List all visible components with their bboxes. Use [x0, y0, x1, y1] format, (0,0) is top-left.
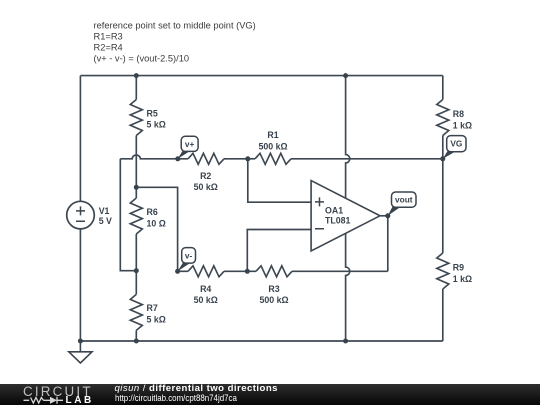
- label R6 value: [147, 207, 166, 228]
- voltage source V1: [67, 201, 112, 229]
- svg-text:50 kΩ: 50 kΩ: [194, 295, 218, 305]
- svg-text:OA1: OA1: [325, 206, 343, 216]
- flag VG: [443, 136, 466, 159]
- ground: [69, 341, 92, 363]
- junction op-amp V- pin bottom rail: [343, 339, 348, 344]
- junction R5 top rail: [134, 73, 139, 78]
- svg-text:R5: R5: [147, 108, 158, 118]
- junction minus input / R4-R3: [245, 269, 250, 274]
- svg-text:(v+ - v-) = (vout-2.5)/10: (v+ - v-) = (vout-2.5)/10: [94, 54, 190, 64]
- svg-text:V1: V1: [99, 206, 110, 216]
- svg-text:500 kΩ: 500 kΩ: [259, 295, 288, 305]
- resistor R1: [255, 153, 291, 164]
- svg-text:5 kΩ: 5 kΩ: [147, 315, 166, 325]
- wire op-amp bottom power pin: [346, 233, 350, 341]
- label R1 value: [258, 130, 287, 152]
- wire middle chain rail: [135, 76, 137, 341]
- wire to op-amp plus input: [248, 159, 311, 202]
- svg-text:50 kΩ: 50 kΩ: [194, 182, 218, 192]
- svg-text:R7: R7: [147, 303, 158, 313]
- svg-text:v-: v-: [185, 250, 193, 260]
- wire op-amp output: [380, 215, 388, 217]
- svg-text:R2: R2: [200, 171, 211, 181]
- svg-text:5 kΩ: 5 kΩ: [147, 120, 166, 130]
- label R4 value: [194, 284, 218, 305]
- svg-text:TL081: TL081: [325, 216, 351, 226]
- flag vout: [388, 192, 416, 216]
- wire right rail upper segment: [442, 76, 444, 159]
- label R9 value: [453, 263, 472, 284]
- resistor R8: [437, 100, 449, 136]
- svg-text:R8: R8: [453, 109, 464, 119]
- resistor R6: [130, 198, 142, 234]
- svg-text:1 kΩ: 1 kΩ: [453, 274, 472, 284]
- svg-text:R4: R4: [200, 284, 211, 294]
- svg-text:reference point set to middle: reference point set to middle point (VG): [94, 21, 256, 31]
- label R2 value: [194, 171, 218, 192]
- resistor R7: [130, 294, 142, 330]
- resistor R4: [188, 266, 224, 277]
- flag v-: [178, 248, 196, 272]
- label R7 value: [147, 303, 166, 324]
- svg-text:R6: R6: [147, 207, 158, 217]
- wire feedback vout down: [387, 216, 389, 271]
- node v-: [175, 269, 180, 274]
- label R3 value: [259, 284, 288, 305]
- junction ground bottom rail: [78, 339, 83, 344]
- node VG: [440, 156, 445, 161]
- label R8 value: [453, 109, 472, 130]
- annotation text block: [94, 21, 256, 64]
- junction R7 bottom rail: [134, 339, 139, 344]
- svg-text:5 V: 5 V: [99, 216, 112, 226]
- svg-text:R1: R1: [267, 130, 278, 140]
- junction R5-R6: [134, 185, 139, 190]
- svg-text:10 Ω: 10 Ω: [147, 219, 166, 229]
- wire v+ line with hops: [120, 155, 443, 159]
- wire v- line with hop: [178, 270, 388, 272]
- junction R6-R7: [134, 268, 139, 273]
- svg-text:VG: VG: [450, 139, 462, 149]
- op-amp OA1 triangle: [311, 181, 380, 251]
- svg-text:R9: R9: [453, 263, 464, 273]
- resistor R5: [130, 100, 142, 136]
- svg-text:R3: R3: [268, 284, 279, 294]
- resistor R2: [188, 153, 224, 164]
- wire R5-R6 junction to v- node: [136, 187, 177, 271]
- resistor R3: [256, 266, 292, 277]
- wire right rail lower segment: [442, 159, 444, 341]
- node v+: [175, 156, 180, 161]
- label R5 value: [147, 108, 166, 129]
- flag v+: [178, 136, 198, 159]
- svg-text:R1=R3: R1=R3: [94, 32, 123, 42]
- svg-text:v+: v+: [185, 139, 195, 149]
- wire left rail: [79, 76, 81, 341]
- node vout: [385, 213, 390, 218]
- wire to op-amp minus input: [247, 230, 311, 272]
- footer bar: [0, 384, 540, 405]
- wire op-amp top power pin: [346, 76, 350, 199]
- svg-text:500 kΩ: 500 kΩ: [258, 141, 287, 151]
- svg-text:R2=R4: R2=R4: [94, 43, 123, 53]
- wire top rail: [80, 75, 442, 77]
- wire bottom rail: [80, 340, 442, 342]
- svg-text:1 kΩ: 1 kΩ: [453, 121, 472, 131]
- wire bypass v+ to R6 bottom: [120, 159, 136, 271]
- resistor R9: [437, 253, 449, 289]
- junction plus input / R2-R1: [245, 156, 250, 161]
- junction op-amp V+ pin top rail: [343, 73, 348, 78]
- svg-text:vout: vout: [395, 195, 413, 205]
